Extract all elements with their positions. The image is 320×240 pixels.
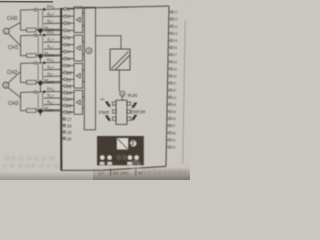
svg-text:22: 22 [174,18,178,22]
svg-text:CH1: CH1 [8,45,18,51]
svg-text:31: 31 [173,82,177,86]
svg-text:24: 24 [174,32,178,36]
svg-text:13: 13 [67,91,72,96]
svg-text:20: 20 [67,136,72,141]
svg-text:27: 27 [173,53,177,57]
svg-text:38: 38 [172,131,176,135]
svg-text:34: 34 [172,103,176,107]
svg-text:19: 19 [67,130,72,135]
svg-text:11: 11 [67,77,72,82]
svg-text:RUN: RUN [128,93,138,98]
svg-text:25: 25 [173,39,177,43]
svg-text:PWR: PWR [99,110,109,115]
svg-text:12: 12 [67,84,72,89]
svg-text:33: 33 [172,96,176,100]
svg-text:37: 37 [172,124,176,128]
svg-text:32: 32 [172,89,176,93]
svg-text:10: 10 [67,71,72,76]
svg-text:40: 40 [171,146,175,150]
svg-text:18: 18 [67,123,72,128]
svg-text:CH3: CH3 [8,101,18,107]
svg-text:28: 28 [173,60,177,64]
svg-text:39: 39 [172,138,176,142]
svg-text:35: 35 [172,110,176,114]
svg-text:15: 15 [67,104,72,109]
svg-text:CH2: CH2 [7,70,17,76]
svg-text:16: 16 [67,110,72,115]
svg-text:29: 29 [173,67,177,71]
svg-text:30: 30 [173,75,177,79]
svg-text:36: 36 [172,117,176,121]
svg-text:26: 26 [173,46,177,50]
svg-text:23: 23 [174,25,178,29]
svg-text:ERROR: ERROR [131,110,146,115]
svg-text:CH0: CH0 [7,16,17,22]
svg-text:17: 17 [67,117,72,122]
svg-text:14: 14 [67,97,72,102]
svg-text:4n: 4n [100,98,104,102]
svg-text:21: 21 [174,11,178,15]
